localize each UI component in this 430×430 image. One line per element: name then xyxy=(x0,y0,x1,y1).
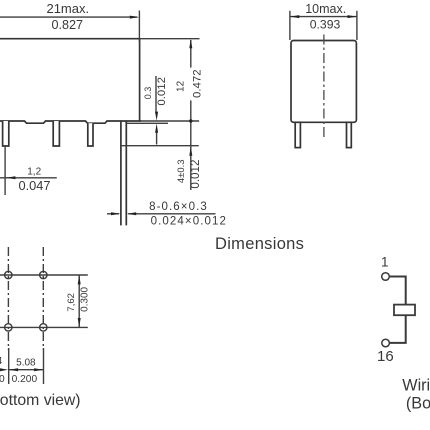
svg-text:0.472: 0.472 xyxy=(191,69,203,98)
bottom view row line 2 xyxy=(0,326,88,328)
bottom view dashed column line 1 xyxy=(7,247,9,350)
svg-text:0.300: 0.300 xyxy=(80,286,91,311)
side view seating line y=123.3 xyxy=(127,122,168,124)
svg-text:4±0.3: 4±0.3 xyxy=(176,159,187,183)
svg-text:0.3: 0.3 xyxy=(143,87,153,100)
pin width dim line left part xyxy=(107,213,119,215)
dim 1,2 dimension line xyxy=(0,177,57,179)
arrow 0.3 upper (down) xyxy=(155,112,158,121)
bottom view pad circles xyxy=(5,271,47,331)
arrow 5.08 right xyxy=(34,368,43,371)
junction dot 12 dim bottom xyxy=(189,119,192,122)
svg-text:16: 16 xyxy=(377,348,394,365)
dim 1,2 leader from pin1 xyxy=(4,146,6,195)
arrow cut-off dim (right-pointing at x=8.7) xyxy=(0,368,8,371)
side view pin 2 xyxy=(53,121,59,146)
svg-text:0.012: 0.012 xyxy=(189,160,202,189)
side view body bottom profile xyxy=(0,121,141,123)
svg-text:0.393: 0.393 xyxy=(310,18,341,32)
arrow 5.08 left xyxy=(9,368,18,371)
side view pin 1 xyxy=(3,121,9,146)
svg-text:(Bottom view): (Bottom view) xyxy=(406,395,430,413)
side view pin tip extension y=145.7 xyxy=(121,145,199,147)
arrow pin width right (left-pointing) xyxy=(127,212,136,215)
side view pin 3 xyxy=(88,123,93,146)
svg-text:1: 1 xyxy=(381,255,389,270)
side view body right edge xyxy=(139,39,141,121)
bottom view dashed column line 2 xyxy=(42,247,44,350)
arrow 1,2 (left) xyxy=(6,176,15,179)
pad circle row1 col2 xyxy=(40,271,47,278)
terminal circle pin 16 xyxy=(382,339,390,347)
bottom view row line 1 xyxy=(0,274,88,276)
arrow 4 dim bottom (up, below pin tip line) xyxy=(189,146,192,155)
svg-text:0: 0 xyxy=(0,374,5,385)
pin width dim line right part / fraction bar xyxy=(128,213,215,215)
arrow 7,62 top (up) xyxy=(78,275,81,284)
dim 0.3 leader lower xyxy=(156,130,158,145)
dim 5.08 extension line right xyxy=(43,348,45,384)
side view top edge extension (12 dim) xyxy=(140,38,200,40)
wiring diagram xyxy=(377,255,430,413)
svg-text:0.200: 0.200 xyxy=(12,374,38,385)
end view dim extension right xyxy=(356,11,358,40)
side view body top edge xyxy=(0,38,140,40)
dim 21max extension line xyxy=(138,11,140,42)
pad circle row2 col1 xyxy=(5,324,12,331)
svg-text:Dimensions: Dimensions xyxy=(215,235,304,253)
end view pin left xyxy=(295,122,300,147)
svg-text:21max.: 21max. xyxy=(46,1,89,16)
arrow 21max right xyxy=(130,16,139,19)
svg-text:8-0.6×0.3: 8-0.6×0.3 xyxy=(149,201,208,213)
pad circle row2 col2 xyxy=(40,324,47,331)
white gap behind 0.472 label xyxy=(190,68,204,101)
svg-text:0.827: 0.827 xyxy=(52,18,84,32)
svg-text:10max.: 10max. xyxy=(305,2,346,16)
side view long pin left edge xyxy=(120,121,122,225)
arrow 7,62 bottom (down) xyxy=(78,318,81,327)
svg-text:1,2: 1,2 xyxy=(27,166,41,177)
wire from pin1 to coil xyxy=(389,277,405,343)
dim 0.3 leader upper xyxy=(155,76,157,114)
cut-off left dim leader xyxy=(0,369,5,371)
arrow 0.3 lower (up) xyxy=(155,124,158,133)
svg-text:7,62: 7,62 xyxy=(66,293,77,312)
end view dim extension left xyxy=(289,11,291,40)
svg-text:12: 12 xyxy=(176,80,187,92)
end view dimension line xyxy=(290,16,357,18)
end view center line (dashed) xyxy=(323,35,325,139)
arrow 10max right xyxy=(348,15,357,18)
dim 5.08 extension line left xyxy=(8,348,10,384)
end view body outline xyxy=(291,41,356,123)
dim 21max dimension line xyxy=(0,16,137,18)
side view bottom extension line y=121 xyxy=(141,120,199,122)
svg-text:Wiring Diagram: Wiring Diagram xyxy=(402,377,430,395)
svg-text:5.08: 5.08 xyxy=(16,357,36,368)
side view long pin right edge xyxy=(125,121,127,225)
arrow pin width left (right-pointing) xyxy=(111,212,120,215)
arrow 10max left xyxy=(290,15,299,18)
dim 12 / 4 vertical dimension line xyxy=(190,40,192,190)
dim 5.08 dimension line xyxy=(9,369,44,371)
svg-text:(Bottom view): (Bottom view) xyxy=(0,392,81,409)
end view pin right xyxy=(347,122,352,147)
svg-text:0.012: 0.012 xyxy=(156,77,168,106)
dim 7,62 dimension line xyxy=(78,275,80,327)
pad circle row1 col1 xyxy=(5,271,12,278)
svg-text:0.024×0.012: 0.024×0.012 xyxy=(151,215,227,227)
terminal circle pin 1 xyxy=(382,273,390,281)
arrow 12 dim top (up) xyxy=(189,39,192,48)
svg-text:0.047: 0.047 xyxy=(18,178,50,193)
coil rectangle xyxy=(394,305,415,316)
